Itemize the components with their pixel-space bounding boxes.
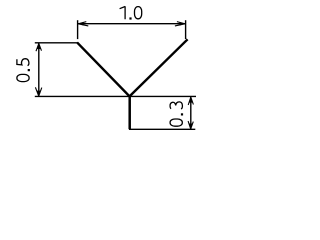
arrow up of 0.5: [36, 43, 42, 51]
right arm of V (object line): [130, 39, 188, 96]
bottom extension line for 0.3: [129, 128, 195, 130]
text 0.3 (rotated): [170, 102, 183, 126]
left arm of V (object line): [77, 42, 130, 96]
arrow up of 0.3: [188, 97, 193, 105]
arrow down of 0.3: [188, 121, 193, 129]
dimension line 0.5: [38, 43, 40, 96]
dimension line 0.3: [190, 97, 192, 129]
arrow left of 1.0: [78, 22, 88, 26]
right extension line for 1.0: [185, 20, 187, 39]
arrow down of 0.5: [35, 87, 41, 96]
dimension line 1.0: [78, 23, 185, 25]
text 0.5 (rotated): [17, 59, 30, 82]
baseline (reference line): [35, 95, 196, 97]
stem (object line): [128, 96, 131, 130]
top-left extension line for 0.5: [35, 42, 78, 44]
arrow right of 1.0: [175, 22, 185, 26]
left extension line for 1.0: [77, 20, 79, 39]
text 1.0: [120, 6, 142, 19]
